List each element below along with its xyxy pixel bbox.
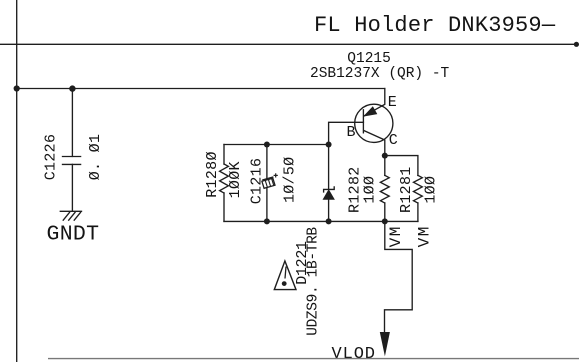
wire emitter drop from rail bbox=[364, 89, 385, 117]
node collector junction bbox=[382, 153, 388, 159]
node junction left bus / rail bbox=[14, 85, 20, 91]
svg-text:2SB1237X (QR) -T: 2SB1237X (QR) -T bbox=[310, 66, 450, 82]
capacitor C1226 plates bbox=[63, 157, 81, 165]
arrow VLOD bbox=[380, 332, 390, 356]
svg-text:C1226: C1226 bbox=[42, 134, 59, 181]
svg-text:C: C bbox=[389, 132, 398, 149]
wire C1216 bottom lead bbox=[266, 189, 268, 222]
node top rail right end bbox=[574, 42, 579, 47]
wire base lead bbox=[329, 122, 364, 144]
node R1282 bottom junction bbox=[382, 218, 388, 224]
node base/zener junction bbox=[326, 142, 332, 148]
svg-text:VLOD: VLOD bbox=[332, 345, 376, 362]
svg-text:C1216: C1216 bbox=[248, 158, 265, 205]
wire C1226 top lead bbox=[71, 89, 73, 157]
svg-text:VM: VM bbox=[416, 225, 434, 247]
polarity plus sign C1216 bbox=[274, 173, 278, 177]
node zener bottom junction bbox=[326, 218, 332, 224]
svg-text:VM: VM bbox=[387, 225, 405, 247]
wire collector to R1281 bbox=[385, 156, 418, 176]
node C1216 top junction bbox=[264, 142, 270, 148]
resistor R1282 bbox=[380, 156, 389, 222]
warning triangle symbol bbox=[274, 261, 296, 290]
ground GNDT chassis symbol bbox=[60, 211, 81, 220]
transistor Q1215 emitter arrow (PNP) bbox=[365, 107, 377, 115]
transistor Q1215 base bar bbox=[362, 110, 364, 133]
svg-text:R1281: R1281 bbox=[398, 166, 415, 213]
svg-text:1ØØ: 1ØØ bbox=[361, 176, 378, 204]
svg-text:GNDT: GNDT bbox=[47, 223, 100, 247]
wire zener bottom lead bbox=[328, 199, 330, 221]
svg-text:E: E bbox=[388, 94, 397, 111]
wire VM jog to VLOD bbox=[385, 221, 413, 332]
svg-text:1ØØK: 1ØØK bbox=[227, 161, 244, 198]
svg-text:Ø. Ø1: Ø. Ø1 bbox=[87, 134, 104, 181]
svg-text:Q1215: Q1215 bbox=[347, 51, 391, 67]
wire box bottom rail bbox=[224, 220, 418, 222]
wire collector lead bbox=[364, 131, 385, 156]
wire left vertical bus bbox=[16, 0, 18, 362]
svg-text:B: B bbox=[346, 124, 355, 141]
svg-text:R128Ø: R128Ø bbox=[204, 151, 221, 198]
wire C1226 bottom lead bbox=[71, 164, 73, 211]
resistor R1281 bbox=[414, 175, 423, 221]
wire top rail bbox=[0, 43, 576, 45]
node C1216 bottom junction bbox=[264, 218, 270, 224]
resistor R1280 bbox=[220, 145, 229, 222]
wire bottom rail bbox=[48, 358, 579, 360]
transistor Q1215 body circle bbox=[355, 104, 393, 142]
wire C1216 top lead bbox=[266, 145, 268, 179]
wire zener top lead bbox=[328, 145, 330, 190]
svg-text:1Ø/5Ø: 1Ø/5Ø bbox=[281, 157, 298, 204]
node junction C1226 / rail bbox=[69, 85, 75, 91]
svg-text:UDZS9. 1B-TRB: UDZS9. 1B-TRB bbox=[306, 227, 322, 336]
wire second rail (emitter supply) bbox=[17, 88, 385, 90]
diode D1221 zener cathode bar bbox=[324, 187, 335, 192]
wire box top rail bbox=[224, 144, 329, 146]
svg-text:FL Holder DNK3959—: FL Holder DNK3959— bbox=[314, 13, 556, 38]
capacitor C1216 electrolytic symbol bbox=[262, 177, 275, 188]
svg-text:1ØØ: 1ØØ bbox=[423, 176, 440, 204]
diode D1221 triangle bbox=[323, 190, 334, 200]
